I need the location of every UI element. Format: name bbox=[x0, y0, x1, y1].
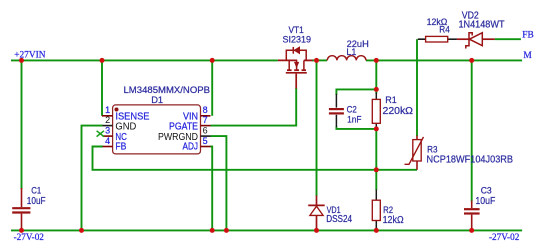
svg-text:7: 7 bbox=[203, 115, 208, 125]
svg-text:ADJ: ADJ bbox=[183, 141, 199, 152]
resistor R2 body bbox=[372, 200, 380, 220]
wire to pin1 ISENSE bbox=[101, 60, 103, 115]
diode VD2 cathode schottky bar bbox=[466, 33, 472, 49]
no-connect X on pin 3 bbox=[97, 131, 104, 137]
junction dot rail/C3 bbox=[469, 228, 474, 233]
svg-text:DSS24: DSS24 bbox=[326, 214, 352, 225]
op-amp U1 IC D1 LM3485 body bbox=[113, 105, 201, 154]
svg-text:5: 5 bbox=[203, 136, 208, 146]
svg-text:FB: FB bbox=[115, 141, 126, 152]
transistor VT1 substrate arrow bbox=[295, 62, 299, 67]
capacitor C2 leads bbox=[335, 94, 337, 108]
transistor VT1 source lead bbox=[278, 59, 297, 61]
svg-text:L1: L1 bbox=[346, 47, 356, 57]
transistor VT1 body diode triangle bbox=[294, 47, 299, 53]
pin 2 stub bbox=[103, 125, 113, 127]
pin 8 stub bbox=[201, 115, 211, 117]
svg-text:R2: R2 bbox=[383, 205, 393, 215]
wire switch node segment (drain to inductor) bbox=[312, 59, 327, 61]
svg-text:-27V-02: -27V-02 bbox=[489, 232, 520, 242]
svg-text:NCP18WF104J03RB: NCP18WF104J03RB bbox=[427, 154, 514, 165]
junction dot FB node bbox=[374, 167, 379, 172]
capacitor C1 bottom lead bbox=[21, 214, 23, 231]
wire ADJ pin5 to bottom rail bbox=[211, 147, 213, 231]
capacitor C1 top lead bbox=[21, 188, 23, 207]
svg-text:C3: C3 bbox=[481, 185, 492, 195]
wire C2 bottom loop bbox=[336, 127, 376, 129]
svg-text:10uF: 10uF bbox=[27, 196, 46, 207]
svg-text:-27V-02: -27V-02 bbox=[14, 232, 45, 242]
svg-text:R4: R4 bbox=[439, 24, 450, 34]
diode VD2 triangle bbox=[469, 33, 482, 46]
svg-text:R1: R1 bbox=[385, 95, 397, 105]
diode VD2 lead anode side bbox=[482, 38, 494, 40]
svg-text:VT1: VT1 bbox=[289, 25, 304, 35]
transistor VT1 drain lead bbox=[304, 59, 313, 61]
thermistor R3 diagonal strike bbox=[405, 137, 424, 164]
diode VD1 anode lead bbox=[316, 215, 318, 230]
svg-text:4: 4 bbox=[105, 136, 110, 146]
wire M rail (inductor right to M label) bbox=[366, 59, 522, 61]
pin 6 stub bbox=[201, 135, 211, 137]
wire to pin8 VIN bbox=[211, 60, 213, 115]
resistor R2 leads bbox=[375, 190, 377, 201]
wire VD1 cathode branch bbox=[316, 60, 318, 196]
svg-text:1N4148WT: 1N4148WT bbox=[459, 19, 505, 30]
wire PGATE pin7 to gate bbox=[211, 88, 297, 126]
junction dot C2 bottom bbox=[374, 126, 379, 131]
svg-text:1: 1 bbox=[105, 105, 110, 115]
wire switch node down to R1/C2 bbox=[375, 60, 377, 93]
junction dot +27VIN/C1 bbox=[19, 58, 24, 63]
wire VD2 anode to FB label bbox=[495, 38, 521, 40]
wire M rail to C3 bbox=[471, 60, 473, 201]
inductor L1 bbox=[327, 56, 366, 61]
resistor R4 leads bbox=[418, 38, 426, 40]
resistor R1 leads bbox=[375, 93, 377, 100]
svg-text:6: 6 bbox=[203, 126, 208, 136]
wire PWRGND pin6 to bottom rail bbox=[211, 136, 227, 230]
svg-text:LM3485MMX/NOPB: LM3485MMX/NOPB bbox=[124, 85, 211, 95]
pin 1 stub bbox=[102, 115, 113, 117]
svg-text:C1: C1 bbox=[31, 185, 41, 195]
wire R1 bottom to FB node bbox=[375, 127, 377, 170]
resistor R4 body bbox=[426, 36, 448, 42]
junction dot rail/C1 bbox=[19, 228, 24, 233]
junction dot top rail/pin8 bbox=[210, 58, 215, 63]
junction dot top rail/pin1 bbox=[100, 58, 105, 63]
wire +27VIN top rail left segment bbox=[11, 59, 278, 61]
transistor VT1 body diode bridge bbox=[286, 50, 306, 60]
junction dot rail/ADJ wire bbox=[210, 228, 215, 233]
svg-text:10uF: 10uF bbox=[475, 196, 495, 207]
diode VD1 cathode bar bbox=[308, 204, 325, 206]
capacitor C3 bottom lead bbox=[471, 215, 473, 231]
junction dot switch/L1 out bbox=[374, 58, 379, 63]
resistor R1 body bbox=[372, 99, 380, 123]
thermistor R3 body bbox=[413, 140, 421, 161]
transistor VT1 gate lead bbox=[295, 74, 297, 89]
wire FB node to R3 bottom bbox=[376, 169, 417, 171]
thermistor R3 bottom lead bbox=[416, 161, 418, 170]
svg-text:D1: D1 bbox=[151, 95, 163, 105]
wire C2 top loop bbox=[336, 89, 376, 94]
capacitor C3 plates bbox=[464, 208, 480, 210]
pin 7 stub bbox=[201, 125, 211, 127]
capacitor C2 plates bbox=[329, 108, 344, 110]
svg-text:2: 2 bbox=[105, 115, 110, 125]
junction dot rail/R2 bbox=[374, 228, 379, 233]
transistor VT1 channel contacts bbox=[288, 60, 290, 69]
diode VD2 lead cathode side bbox=[457, 38, 469, 40]
wire FB pin4 to divider node bbox=[93, 147, 377, 170]
svg-text:1nF: 1nF bbox=[347, 115, 362, 126]
junction dot rail/PWRGND wire bbox=[224, 228, 229, 233]
junction dot rail/GND wire bbox=[79, 228, 84, 233]
svg-text:C2: C2 bbox=[347, 105, 357, 115]
svg-text:R3: R3 bbox=[427, 145, 437, 155]
transistor VT1 body diode bar bbox=[292, 47, 294, 54]
svg-text:8: 8 bbox=[203, 105, 208, 115]
transistor VT1 gate bar bbox=[286, 72, 307, 74]
pin 3 stub bbox=[103, 135, 113, 137]
svg-text:FB: FB bbox=[522, 31, 533, 41]
svg-text:SI2319: SI2319 bbox=[283, 35, 312, 46]
capacitor C1 plates bbox=[12, 207, 30, 209]
svg-text:12kΩ: 12kΩ bbox=[383, 215, 404, 226]
svg-text:220kΩ: 220kΩ bbox=[383, 106, 414, 117]
pin 1 marker dot bbox=[115, 108, 119, 112]
diode VD1 cathode lead bbox=[316, 196, 318, 206]
wire C1 branch vertical bbox=[21, 60, 23, 189]
transistor VT1 channel plates bbox=[287, 69, 292, 71]
thermistor R3 top lead bbox=[416, 136, 418, 140]
svg-text:3: 3 bbox=[105, 126, 110, 136]
svg-text:+27VIN: +27VIN bbox=[14, 51, 46, 61]
junction dot C2 top bbox=[374, 87, 379, 92]
junction dot M/C3 bbox=[469, 58, 474, 63]
junction dot switch/VD1 bbox=[314, 58, 319, 63]
wire GND pin2 to bottom rail bbox=[82, 126, 104, 231]
wire R2 bottom to rail bbox=[375, 228, 377, 231]
pin 5 stub bbox=[201, 146, 211, 148]
wire R4 left down to R3 top bbox=[416, 39, 418, 136]
junction dot rail/VD1 bbox=[314, 228, 319, 233]
wire bottom -27V rail bbox=[11, 229, 522, 231]
svg-text:M: M bbox=[523, 51, 532, 61]
diode VD1 triangle bbox=[310, 206, 323, 215]
wire FB node to R2 bbox=[375, 170, 377, 190]
capacitor C3 top lead bbox=[471, 201, 473, 209]
pin 4 stub bbox=[103, 146, 113, 148]
